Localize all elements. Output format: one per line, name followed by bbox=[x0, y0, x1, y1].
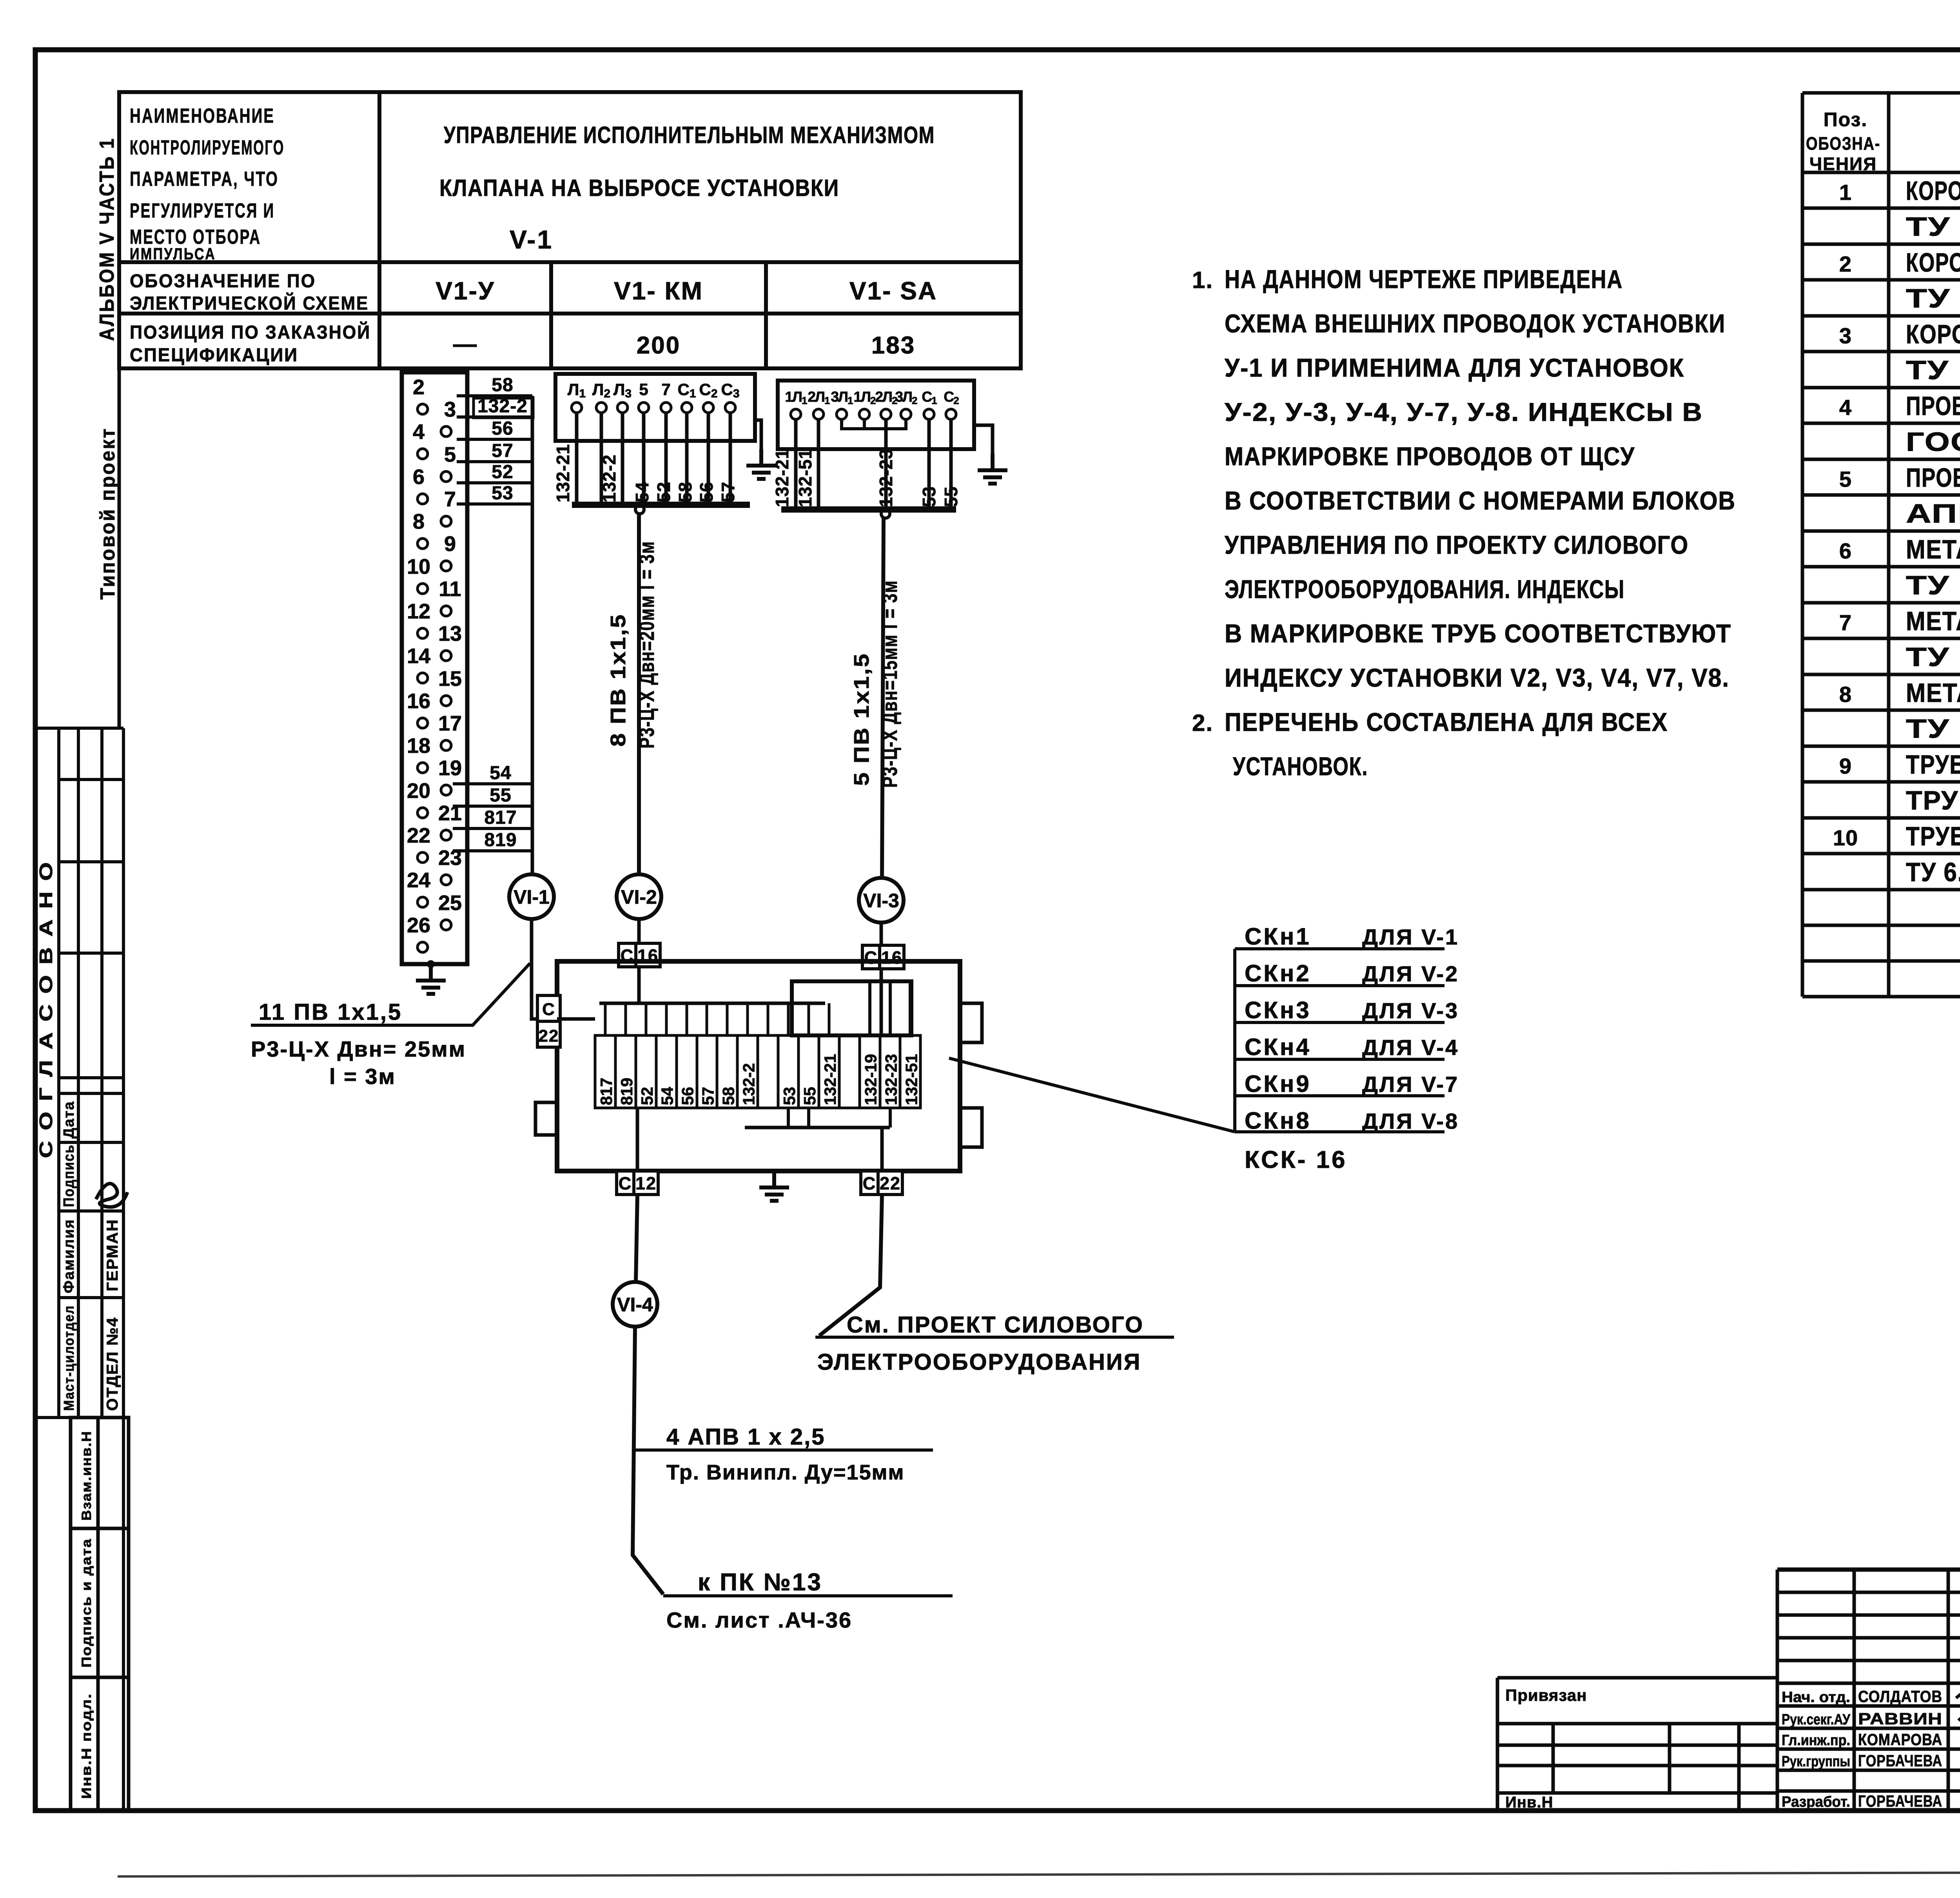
svg-text:58: 58 bbox=[675, 482, 695, 502]
wire stub 817 bbox=[453, 827, 532, 830]
leader line to VI-1 wire bbox=[472, 963, 530, 1026]
svg-text:14: 14 bbox=[407, 644, 430, 668]
tag С22 left bbox=[537, 995, 560, 1047]
svg-text:2: 2 bbox=[1839, 252, 1852, 276]
svg-text:4 АПВ 1 х 2,5: 4 АПВ 1 х 2,5 bbox=[666, 1424, 826, 1450]
svg-text:Типовой проект: Типовой проект bbox=[96, 427, 119, 600]
svg-text:54: 54 bbox=[632, 482, 652, 502]
cable label 4 АПВ 1х2,5 bbox=[635, 1448, 933, 1452]
ground of box2 bbox=[978, 454, 1007, 484]
cable tap VI-3 bbox=[881, 509, 890, 518]
svg-text:СОЛДАТОВ: СОЛДАТОВ bbox=[1858, 1687, 1942, 1706]
svg-text:МАРКИРОВКЕ ПРОВОДОВ ОТ ЩСУ: МАРКИРОВКЕ ПРОВОДОВ ОТ ЩСУ bbox=[1225, 442, 1635, 471]
tag С22 bottom bbox=[861, 1171, 902, 1195]
terminal strip ЩСУ bbox=[402, 372, 467, 964]
svg-text:19: 19 bbox=[438, 756, 462, 780]
main junction box КСК-16 bbox=[557, 961, 960, 1171]
tag С16 on VI-2 bbox=[619, 943, 660, 967]
svg-text:В МАРКИРОВКЕ ТРУБ СООТВЕТС: В МАРКИРОВКЕ ТРУБ СООТВЕТСТВУЮТ bbox=[1225, 619, 1731, 648]
svg-text:22: 22 bbox=[407, 824, 430, 847]
svg-text:КОНТРОЛИРУЕМОГО: КОНТРОЛИРУЕМОГО bbox=[130, 136, 285, 159]
strip bottom junction bbox=[427, 960, 435, 968]
svg-text:VI-2: VI-2 bbox=[621, 886, 657, 908]
box2 jumper bbox=[842, 419, 906, 429]
СКн list table bbox=[1235, 949, 1445, 1132]
svg-text:ЭЛЕКТРИЧЕСКОЙ СХЕМЕ: ЭЛЕКТРИЧЕСКОЙ СХЕМЕ bbox=[130, 292, 369, 314]
svg-text:ПРОВОД С МЕДНОЙ ЖИЛОЙ ПВ 1х: ПРОВОД С МЕДНОЙ ЖИЛОЙ ПВ 1х1,5 bbox=[1906, 391, 1960, 421]
svg-text:200: 200 bbox=[637, 332, 681, 359]
svg-text:СКн3: СКн3 bbox=[1245, 997, 1311, 1023]
svg-text:МЕТАЛЛОРУКАВ Р3-Ц-Х-15: МЕТАЛЛОРУКАВ Р3-Ц-Х-15 bbox=[1906, 535, 1960, 564]
svg-text:ТРУБА ВИНИПЛАСТОВАЯ Ду=15ММ: ТРУБА ВИНИПЛАСТОВАЯ Ду=15ММ bbox=[1906, 750, 1960, 780]
svg-text:ЭЛЕКТРООБОРУДОВАНИЯ. ИНДЕКСЫ: ЭЛЕКТРООБОРУДОВАНИЯ. ИНДЕКСЫ bbox=[1225, 575, 1625, 604]
svg-text:3: 3 bbox=[444, 398, 456, 421]
svg-text:С: С bbox=[542, 1000, 555, 1019]
svg-text:ГЕРМАН: ГЕРМАН bbox=[104, 1219, 121, 1291]
svg-text:57: 57 bbox=[492, 441, 513, 461]
svg-text:ГОРБАЧЕВА: ГОРБАЧЕВА bbox=[1858, 1751, 1942, 1770]
sub-box internal drops bbox=[870, 981, 910, 1035]
svg-text:ПАРАМЕТРА, ЧТО: ПАРАМЕТРА, ЧТО bbox=[130, 168, 279, 190]
top bus inside box bbox=[599, 1002, 825, 1005]
svg-text:53: 53 bbox=[919, 486, 939, 507]
svg-text:132-23: 132-23 bbox=[882, 1054, 900, 1105]
svg-text:819: 819 bbox=[484, 830, 517, 850]
svg-text:55: 55 bbox=[941, 486, 961, 507]
ground of strip bbox=[416, 964, 446, 994]
svg-text:3: 3 bbox=[1839, 323, 1852, 348]
svg-text:56: 56 bbox=[679, 1087, 697, 1105]
box2 ground tail bbox=[974, 425, 993, 454]
svg-text:Рук.секг.АУ: Рук.секг.АУ bbox=[1782, 1711, 1850, 1728]
svg-text:132-2: 132-2 bbox=[739, 1063, 758, 1105]
box1 terminal labels bbox=[568, 380, 740, 400]
svg-text:57: 57 bbox=[718, 482, 738, 502]
title block main frame bbox=[1777, 1570, 1960, 1811]
svg-text:6: 6 bbox=[1839, 538, 1852, 563]
svg-text:183: 183 bbox=[871, 332, 915, 359]
svg-text:В СООТВЕТСТВИИ С НОМЕРАМИ Б: В СООТВЕТСТВИИ С НОМЕРАМИ БЛОКОВ bbox=[1225, 486, 1736, 515]
box2 terminal labels bbox=[785, 389, 959, 406]
svg-text:12: 12 bbox=[635, 1173, 657, 1193]
svg-text:Инв.Н подл.: Инв.Н подл. bbox=[79, 1693, 94, 1799]
svg-text:ДЛЯ V-2: ДЛЯ V-2 bbox=[1362, 961, 1459, 986]
svg-text:ИМПУЛЬСА: ИМПУЛЬСА bbox=[130, 245, 216, 263]
svg-text:15: 15 bbox=[438, 667, 462, 691]
svg-text:ТРУБА ВИНИПЛАСТОВАЯ Ду=20М: ТРУБА ВИНИПЛАСТОВАЯ Ду=20ММ bbox=[1906, 821, 1960, 851]
svg-text:54: 54 bbox=[658, 1087, 677, 1105]
svg-text:Поз.: Поз. bbox=[1824, 109, 1868, 131]
svg-text:ТУ 36. 1753-75: ТУ 36. 1753-75 bbox=[1906, 212, 1960, 242]
svg-text:ЭЛЕКТРООБОРУДОВАНИЯ: ЭЛЕКТРООБОРУДОВАНИЯ bbox=[817, 1349, 1141, 1375]
svg-text:ИНДЕКСУ УСТАНОВКИ V2, V3,: ИНДЕКСУ УСТАНОВКИ V2, V3, V4, V7, V8. bbox=[1225, 663, 1730, 692]
svg-text:Гл.инж.пр.: Гл.инж.пр. bbox=[1782, 1732, 1850, 1749]
wire stub 132-2 bbox=[457, 415, 532, 419]
exit wire to С22 bottom bbox=[880, 1128, 884, 1195]
svg-text:Разработ.: Разработ. bbox=[1782, 1794, 1850, 1810]
svg-text:2.: 2. bbox=[1192, 710, 1213, 736]
junction box КСК-8 #1 bbox=[555, 374, 755, 441]
wire VI-4 lower bbox=[633, 1327, 663, 1594]
svg-text:ТУ 22. 2173-71: ТУ 22. 2173-71 bbox=[1906, 714, 1960, 744]
svg-text:12: 12 bbox=[407, 600, 430, 623]
title block: привязан extension bbox=[1497, 1678, 1777, 1811]
svg-text:7: 7 bbox=[444, 488, 456, 511]
box2 terminal circles bbox=[791, 409, 956, 419]
device circle VI-2 bbox=[617, 874, 661, 919]
svg-text:Маст-цилотдел: Маст-цилотдел bbox=[61, 1305, 77, 1411]
svg-text:Фамилия: Фамилия bbox=[61, 1219, 77, 1293]
wire VI-1 lower bbox=[532, 919, 557, 1019]
svg-text:КОРОБКА ПРОТЯЖНАЯ ПК 200х9: КОРОБКА ПРОТЯЖНАЯ ПК 200х90 bbox=[1906, 319, 1960, 349]
sub-box over right slats bbox=[792, 981, 911, 1035]
svg-text:22: 22 bbox=[539, 1026, 559, 1046]
svg-text:17: 17 bbox=[438, 712, 462, 735]
svg-text:20: 20 bbox=[407, 779, 430, 803]
svg-text:817: 817 bbox=[484, 807, 517, 828]
svg-text:ДЛЯ V-3: ДЛЯ V-3 bbox=[1362, 998, 1459, 1023]
svg-text:11: 11 bbox=[439, 577, 461, 601]
svg-text:УПРАВЛЕНИЯ ПО ПРОЕКТУ СИЛО: УПРАВЛЕНИЯ ПО ПРОЕКТУ СИЛОВОГО bbox=[1225, 530, 1689, 559]
svg-text:Нач. отд.: Нач. отд. bbox=[1782, 1689, 1850, 1706]
svg-text:ТУ 22. 2173-71: ТУ 22. 2173-71 bbox=[1906, 642, 1960, 672]
svg-text:СКн9: СКн9 bbox=[1245, 1071, 1311, 1097]
svg-text:Р3-Ц-Х Двн= 25мм: Р3-Ц-Х Двн= 25мм bbox=[251, 1037, 466, 1061]
ground of main box bbox=[759, 1171, 789, 1201]
svg-text:Рук.группы: Рук.группы bbox=[1782, 1753, 1850, 1770]
svg-text:НАИМЕНОВАНИЕ: НАИМЕНОВАНИЕ bbox=[130, 105, 275, 127]
box2 bus bar bbox=[781, 506, 956, 513]
svg-text:РЕГУЛИРУЕТСЯ И: РЕГУЛИРУЕТСЯ И bbox=[130, 199, 275, 222]
wire VI-3 to box bbox=[880, 923, 883, 1035]
svg-text:КОРОБКА СОЕДИНИТЕЛЬНАЯ КСК-1: КОРОБКА СОЕДИНИТЕЛЬНАЯ КСК-16 bbox=[1906, 248, 1960, 277]
svg-text:С: С bbox=[863, 1173, 877, 1193]
svg-text:58: 58 bbox=[492, 375, 513, 395]
terminal slats row bbox=[595, 1035, 920, 1108]
ground of box1 bbox=[746, 449, 776, 479]
svg-text:V1- SA: V1- SA bbox=[849, 277, 937, 305]
svg-text:132-21: 132-21 bbox=[772, 449, 792, 507]
svg-text:54: 54 bbox=[490, 763, 511, 783]
svg-text:5: 5 bbox=[639, 380, 648, 399]
svg-text:РАВВИН: РАВВИН bbox=[1858, 1709, 1942, 1728]
svg-text:52: 52 bbox=[653, 482, 674, 502]
bottom bus inside box bbox=[745, 1126, 890, 1129]
svg-text:132-51: 132-51 bbox=[795, 449, 815, 507]
svg-text:ТРУБА 0.5 1573-75: ТРУБА 0.5 1573-75 bbox=[1906, 786, 1960, 816]
svg-text:Р3-Ц-Х Двн=15мм l = 3м: Р3-Ц-Х Двн=15мм l = 3м bbox=[878, 580, 902, 788]
svg-text:ОТДЕЛ №4: ОТДЕЛ №4 bbox=[104, 1317, 121, 1411]
svg-text:Привязан: Привязан bbox=[1505, 1686, 1587, 1704]
svg-text:132-2: 132-2 bbox=[599, 454, 619, 502]
svg-text:ТУ 22. 2173-71: ТУ 22. 2173-71 bbox=[1906, 571, 1960, 600]
svg-text:52: 52 bbox=[638, 1087, 656, 1105]
svg-text:ДЛЯ V-7: ДЛЯ V-7 bbox=[1362, 1072, 1459, 1097]
svg-text:26: 26 bbox=[407, 914, 430, 937]
svg-text:См. лист .АЧ-36: См. лист .АЧ-36 bbox=[666, 1608, 852, 1632]
svg-text:2: 2 bbox=[413, 375, 425, 399]
взам.инв box bbox=[71, 1418, 129, 1811]
svg-text:ПРОВОД С АЛЮМИНИЕВОЙ ЖИЛОЙ: ПРОВОД С АЛЮМИНИЕВОЙ ЖИЛОЙ bbox=[1906, 462, 1960, 493]
svg-text:9: 9 bbox=[1839, 754, 1852, 778]
box1 terminal wires down to bus bbox=[577, 413, 730, 505]
svg-text:52: 52 bbox=[492, 462, 513, 482]
svg-text:8: 8 bbox=[413, 510, 425, 533]
svg-text:11 ПВ 1х1,5: 11 ПВ 1х1,5 bbox=[259, 999, 402, 1025]
svg-text:ДЛЯ V-4: ДЛЯ V-4 bbox=[1362, 1035, 1459, 1060]
svg-text:ПЕРЕЧЕНЬ СОСТАВЛЕНА ДЛЯ ВСЕ: ПЕРЕЧЕНЬ СОСТАВЛЕНА ДЛЯ ВСЕХ bbox=[1225, 707, 1668, 736]
svg-text:VI-3: VI-3 bbox=[863, 890, 899, 912]
wire stub 55 bbox=[453, 805, 532, 808]
wire stub 56 bbox=[457, 438, 532, 441]
svg-text:Тр. Винипл. Ду=15мм: Тр. Винипл. Ду=15мм bbox=[666, 1461, 905, 1484]
svg-text:5: 5 bbox=[444, 443, 456, 466]
svg-text:53: 53 bbox=[780, 1087, 799, 1105]
svg-text:1.: 1. bbox=[1192, 267, 1213, 293]
parameter table frame bbox=[119, 92, 1021, 368]
terminal numbers and circles bbox=[417, 404, 451, 952]
svg-text:5 ПВ 1х1,5: 5 ПВ 1х1,5 bbox=[850, 653, 873, 786]
cable tap VI-2 bbox=[635, 505, 644, 514]
wire stub 58 bbox=[457, 394, 532, 397]
svg-text:16: 16 bbox=[407, 689, 430, 713]
svg-text:—: — bbox=[453, 331, 477, 357]
svg-text:18: 18 bbox=[407, 734, 430, 758]
box2 terminal wires down to bus bbox=[796, 419, 951, 509]
margin line under parameter table bbox=[118, 368, 121, 728]
svg-text:УСТАНОВОК.: УСТАНОВОК. bbox=[1233, 752, 1368, 781]
svg-text:10: 10 bbox=[1833, 825, 1858, 850]
junction box КСК-8 #2 bbox=[778, 381, 974, 449]
svg-text:V1- КМ: V1- КМ bbox=[614, 277, 703, 305]
svg-text:СКн2: СКн2 bbox=[1245, 960, 1311, 986]
svg-text:V-1: V-1 bbox=[510, 225, 553, 254]
svg-text:57: 57 bbox=[699, 1087, 717, 1105]
box1 terminal circles bbox=[572, 402, 735, 413]
svg-text:СПЕЦИФИКАЦИИ: СПЕЦИФИКАЦИИ bbox=[130, 345, 298, 366]
svg-text:УПРАВЛЕНИЕ ИСПОЛНИТЕЛЬНЫМ МЕ: УПРАВЛЕНИЕ ИСПОЛНИТЕЛЬНЫМ МЕХАНИЗМОМ bbox=[444, 122, 935, 148]
svg-text:ТУ 36. 1070-75: ТУ 36. 1070-75 bbox=[1906, 355, 1960, 385]
svg-text:1: 1 bbox=[1839, 180, 1852, 205]
svg-text:КЛАПАНА НА ВЫБРОСЕ УСТА: КЛАПАНА НА ВЫБРОСЕ УСТАНОВКИ bbox=[439, 175, 839, 201]
svg-text:22: 22 bbox=[880, 1173, 901, 1193]
specification table frame bbox=[1802, 93, 1960, 997]
svg-text:С О Г Л А С О В А Н О: С О Г Л А С О В А Н О bbox=[36, 860, 56, 1158]
svg-text:132-21: 132-21 bbox=[553, 444, 573, 502]
svg-text:Взам.инв.Н: Взам.инв.Н bbox=[79, 1430, 94, 1521]
к ПК №13 leader bbox=[663, 1594, 953, 1597]
svg-text:24: 24 bbox=[407, 868, 430, 892]
svg-text:7: 7 bbox=[661, 380, 670, 399]
svg-text:VI-4: VI-4 bbox=[617, 1294, 653, 1316]
box around label 132-2 bbox=[474, 398, 533, 418]
device circle VI-3 bbox=[859, 878, 904, 923]
exit wire to С12 bottom bbox=[636, 1108, 639, 1195]
svg-text:132-51: 132-51 bbox=[902, 1054, 920, 1105]
svg-text:См. ПРОЕКТ СИЛОВОГО: См. ПРОЕКТ СИЛОВОГО bbox=[847, 1312, 1144, 1338]
svg-text:У-2, У-3, У-4, У-7, У-8.: У-2, У-3, У-4, У-7, У-8. ИНДЕКСЫ В bbox=[1225, 397, 1703, 426]
svg-text:Подпись и дата: Подпись и дата bbox=[79, 1538, 94, 1668]
box tabs bbox=[535, 1003, 982, 1147]
leader to СКн list bbox=[949, 1058, 1235, 1132]
sidebar signature bbox=[96, 1184, 127, 1207]
svg-text:У-1 И ПРИМЕНИМА ДЛЯ УСТАН: У-1 И ПРИМЕНИМА ДЛЯ УСТАНОВОК bbox=[1225, 353, 1684, 382]
approval sidebar grid bbox=[35, 728, 123, 1811]
wire VI-1 vertical collector bbox=[531, 396, 534, 874]
wire VI-2 to box bbox=[637, 919, 641, 1003]
svg-text:ГОСТ 6323-79: ГОСТ 6323-79 bbox=[1906, 427, 1960, 457]
svg-text:ЧЕНИЯ: ЧЕНИЯ bbox=[1809, 154, 1877, 174]
svg-text:25: 25 bbox=[438, 891, 462, 915]
svg-text:819: 819 bbox=[617, 1078, 636, 1105]
svg-text:Дата: Дата bbox=[61, 1101, 77, 1138]
svg-text:КСК- 16: КСК- 16 bbox=[1245, 1146, 1347, 1173]
slat ticks to top bus bbox=[605, 1003, 829, 1035]
svg-text:Р3-Ц-Х Двн=20мм l = 3м: Р3-Ц-Х Двн=20мм l = 3м bbox=[635, 541, 659, 749]
svg-text:ДЛЯ V-1: ДЛЯ V-1 bbox=[1362, 925, 1459, 949]
svg-text:ГОРБАЧЕВА: ГОРБАЧЕВА bbox=[1858, 1792, 1942, 1810]
svg-text:56: 56 bbox=[696, 482, 717, 502]
cable label 11 ПВ 1х1,5 bbox=[251, 1024, 474, 1027]
svg-text:КОРОБКА СОЕДИНИТЕЛЬНАЯ КСК: КОРОБКА СОЕДИНИТЕЛЬНАЯ КСК-8 bbox=[1906, 176, 1960, 206]
svg-text:ПОЗИЦИЯ ПО ЗАКАЗНОЙ: ПОЗИЦИЯ ПО ЗАКАЗНОЙ bbox=[130, 321, 371, 343]
svg-text:9: 9 bbox=[444, 532, 456, 556]
svg-text:4: 4 bbox=[413, 420, 425, 444]
wire stub 819 bbox=[453, 849, 532, 852]
svg-text:СКн4: СКн4 bbox=[1245, 1034, 1311, 1060]
svg-text:132-21: 132-21 bbox=[821, 1054, 839, 1105]
title block signature table bbox=[1777, 1570, 1960, 1811]
wire stub 54 bbox=[453, 782, 532, 785]
svg-text:56: 56 bbox=[492, 418, 513, 439]
wire stub 52 bbox=[457, 481, 532, 484]
wire stub 53 bbox=[457, 502, 532, 506]
svg-text:АЛЬБОМ V ЧАСТЬ 1: АЛЬБОМ V ЧАСТЬ 1 bbox=[96, 137, 118, 341]
cable VI-2 vertical bbox=[637, 514, 641, 874]
svg-text:l = 3м: l = 3м bbox=[329, 1064, 396, 1089]
svg-text:53: 53 bbox=[492, 483, 513, 504]
cable VI-3 vertical bbox=[882, 518, 884, 878]
svg-text:ОБОЗНАЧЕНИЕ ПО: ОБОЗНАЧЕНИЕ ПО bbox=[130, 271, 316, 292]
svg-text:55: 55 bbox=[800, 1087, 819, 1105]
svg-text:НА ДАННОМ ЧЕРТЕЖЕ ПРИВЕДЕНА: НА ДАННОМ ЧЕРТЕЖЕ ПРИВЕДЕНА bbox=[1225, 265, 1623, 294]
device circle VI-4 bbox=[613, 1282, 657, 1327]
tag С12 bottom bbox=[617, 1171, 658, 1195]
svg-text:ОБОЗНА-: ОБОЗНА- bbox=[1806, 133, 1880, 154]
svg-text:817: 817 bbox=[597, 1078, 615, 1105]
svg-text:4: 4 bbox=[1839, 395, 1852, 420]
svg-text:16: 16 bbox=[881, 948, 902, 968]
svg-text:8 ПВ 1х1,5: 8 ПВ 1х1,5 bbox=[606, 613, 630, 747]
box1 ground tail bbox=[755, 420, 761, 449]
svg-text:МЕТАЛЛОРУКАВ Р3-Ц-Х-20: МЕТАЛЛОРУКАВ Р3-Ц-Х-20 bbox=[1906, 606, 1960, 636]
svg-text:ДЛЯ V-8: ДЛЯ V-8 bbox=[1362, 1109, 1459, 1133]
svg-text:ТУ 6. 05. 1573-75: ТУ 6. 05. 1573-75 bbox=[1906, 857, 1960, 887]
svg-text:5: 5 bbox=[1839, 467, 1852, 491]
svg-text:V1-У: V1-У bbox=[436, 277, 495, 305]
device circle VI-1 bbox=[509, 874, 554, 919]
wire VI-3 exit bbox=[819, 1195, 882, 1336]
см. проект силового label bbox=[815, 1336, 1174, 1339]
svg-text:Подпись: Подпись bbox=[61, 1144, 77, 1207]
svg-text:132-23: 132-23 bbox=[876, 449, 896, 507]
svg-text:55: 55 bbox=[490, 785, 511, 806]
svg-text:VI-1: VI-1 bbox=[514, 886, 550, 908]
svg-text:Инв.Н: Инв.Н bbox=[1505, 1794, 1553, 1811]
svg-text:58: 58 bbox=[719, 1087, 737, 1105]
svg-text:МЕТАЛЛОРУКАВ Р3-Ц-Х-25: МЕТАЛЛОРУКАВ Р3-Ц-Х-25 bbox=[1906, 678, 1960, 708]
svg-text:ТУ 36. 1753-75: ТУ 36. 1753-75 bbox=[1906, 284, 1960, 314]
svg-text:СХЕМА ВНЕШНИХ ПРОВОДОК УС: СХЕМА ВНЕШНИХ ПРОВОДОК УСТАНОВКИ bbox=[1225, 309, 1726, 338]
svg-text:С: С bbox=[619, 1173, 632, 1193]
svg-text:10: 10 bbox=[407, 555, 430, 578]
svg-text:132-19: 132-19 bbox=[862, 1054, 880, 1105]
svg-text:7: 7 bbox=[1839, 610, 1852, 635]
wire to VI-4 bbox=[636, 1195, 637, 1282]
svg-text:к ПК №13: к ПК №13 bbox=[698, 1569, 822, 1596]
svg-text:13: 13 bbox=[438, 622, 462, 645]
svg-text:6: 6 bbox=[413, 465, 425, 489]
left entry from С22 bbox=[557, 1017, 595, 1021]
wire stub 57 bbox=[457, 460, 532, 463]
svg-text:С: С bbox=[864, 948, 878, 968]
svg-text:8: 8 bbox=[1839, 682, 1852, 707]
box1 bus bar bbox=[572, 502, 750, 508]
svg-text:СКн1: СКн1 bbox=[1245, 923, 1311, 950]
svg-text:КОМАРОВА: КОМАРОВА bbox=[1858, 1730, 1942, 1749]
svg-text:СКн8: СКн8 bbox=[1245, 1108, 1311, 1134]
tag С16 on VI-3 bbox=[862, 945, 904, 969]
svg-text:АПВ 1х2,5 ГОСТ 6323-: АПВ 1х2,5 ГОСТ 6323-79 bbox=[1906, 499, 1960, 529]
